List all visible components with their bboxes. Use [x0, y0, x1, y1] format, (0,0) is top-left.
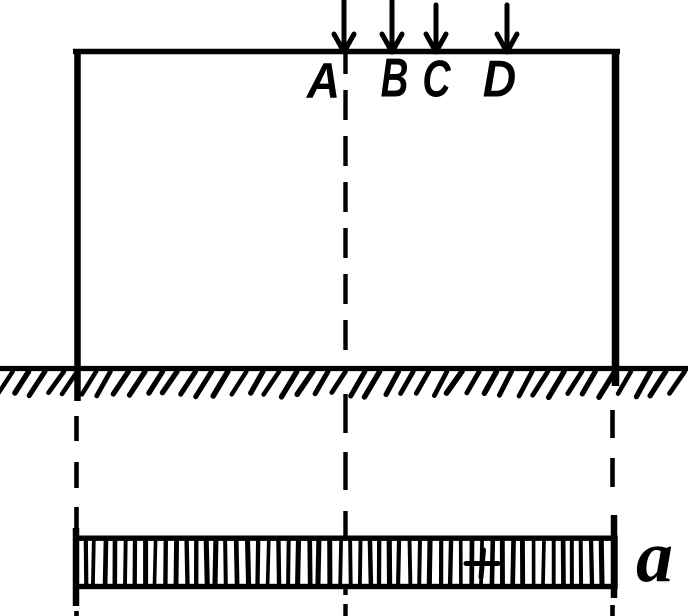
right edge dashed projection	[610, 410, 615, 616]
pressure diagram bar outline	[76, 538, 615, 586]
svg-text:a: a	[636, 516, 673, 598]
load arrow B	[382, 1, 402, 52]
svg-text:B: B	[381, 48, 409, 109]
svg-text:A: A	[306, 54, 340, 109]
load arrow A	[334, 0, 354, 52]
left edge dashed projection	[74, 416, 79, 616]
load arrow C	[426, 5, 446, 52]
load arrow D	[497, 5, 517, 52]
svg-text:D: D	[483, 50, 516, 108]
building left wall	[74, 49, 81, 401]
svg-text:C: C	[422, 49, 451, 108]
ground hatching	[0, 372, 685, 398]
building top edge	[73, 49, 620, 54]
plus mark	[466, 550, 498, 577]
bar right cap	[611, 515, 618, 598]
ground surface line	[0, 366, 688, 371]
bar hatching	[86, 538, 602, 587]
centerline under A (dashed axis)	[343, 54, 347, 366]
building right wall	[612, 49, 620, 386]
center dashed projection	[343, 394, 347, 616]
bar left cap	[73, 528, 80, 606]
